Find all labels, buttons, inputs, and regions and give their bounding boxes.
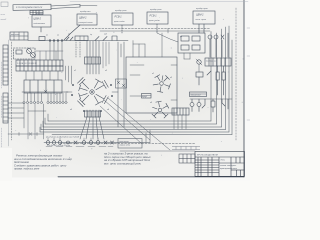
svg-text:лист2: лист2 (0, 19, 7, 21)
svg-text:цепь счёт: цепь счёт (114, 21, 125, 23)
svg-text:прибор реле: прибор реле (115, 10, 128, 12)
svg-text:прибор реле: прибор реле (150, 9, 163, 11)
svg-text:вк2: вк2 (104, 34, 107, 36)
svg-text:в1: в1 (152, 73, 154, 75)
svg-text:прибор цепи: прибор цепи (196, 8, 209, 10)
svg-text:замыкание: замыкание (190, 95, 202, 97)
svg-text:п4: п4 (107, 108, 109, 111)
svg-text:1 2 3 4 5 6 7 8 9 10 11: 1 2 3 4 5 6 7 8 9 10 11 (17, 62, 37, 65)
svg-text:провер. надписи реле: провер. надписи реле (14, 168, 40, 171)
svg-text:ЦВМ-2: ЦВМ-2 (79, 17, 87, 20)
svg-text:схема электрич.: схема электрич. (220, 165, 237, 167)
svg-text:2,5а 5а тк1 об,2 рк: 2,5а 5а тк1 об,2 рк 2,5а нт (46, 145, 71, 147)
svg-text:цепь учёт: цепь учёт (149, 20, 160, 22)
svg-text:распред.счет: распред.счет (78, 21, 93, 24)
svg-text:сигн. цепь: сигн. цепь (196, 19, 207, 21)
svg-text:п3: п3 (70, 109, 72, 111)
svg-text:ЛСС: ЛСС (221, 160, 226, 162)
svg-text:п2: п2 (105, 70, 107, 72)
svg-text:ЦВМ-2: ЦВМ-2 (196, 14, 204, 17)
svg-text:р1: р1 (67, 34, 70, 36)
svg-text:вкл. цепи согласующий реж.: вкл. цепи согласующий реж. (104, 161, 142, 165)
svg-text:вн.сх: вн.сх (1, 14, 5, 16)
svg-text:рв: рв (179, 36, 182, 38)
svg-text:с.т.поз.реле.тип.сх: с.т.поз.реле.тип.сх (16, 5, 43, 9)
svg-text:выключ.: выключ. (36, 13, 44, 15)
svg-text:в3: в3 (150, 102, 152, 104)
svg-text:подшипник: подшипник (34, 22, 46, 25)
svg-text:принципиальная: принципиальная (220, 168, 238, 170)
svg-text:п1: п1 (74, 70, 76, 72)
svg-text:в2: в2 (170, 77, 172, 79)
svg-text:подпись кн: подпись кн (206, 60, 217, 63)
svg-text:вк: вк (57, 35, 59, 37)
svg-text:РСВ-1: РСВ-1 (150, 15, 158, 18)
svg-text:р1 р2 р3 рн вк р4 р5 р: р1 р2 р3 рн вк р4 р5 р6 кн вк р7 р8 р9 (45, 136, 80, 139)
svg-text:реле врем: реле врем (119, 141, 130, 143)
svg-text:вкл откл: вкл откл (11, 34, 20, 36)
svg-text:ФР.УК.0.ВОДСТВОМ: ФР.УК.0.ВОДСТВОМ (197, 153, 218, 156)
svg-text:замык. сети: замык. сети (119, 145, 131, 147)
svg-text:кн: кн (46, 35, 48, 37)
svg-text:прибор вкл: прибор вкл (80, 11, 91, 13)
svg-text:ЦВМ-2: ЦВМ-2 (34, 18, 42, 21)
svg-text:др: др (90, 33, 92, 36)
svg-text:РСВ-1: РСВ-1 (115, 16, 123, 19)
